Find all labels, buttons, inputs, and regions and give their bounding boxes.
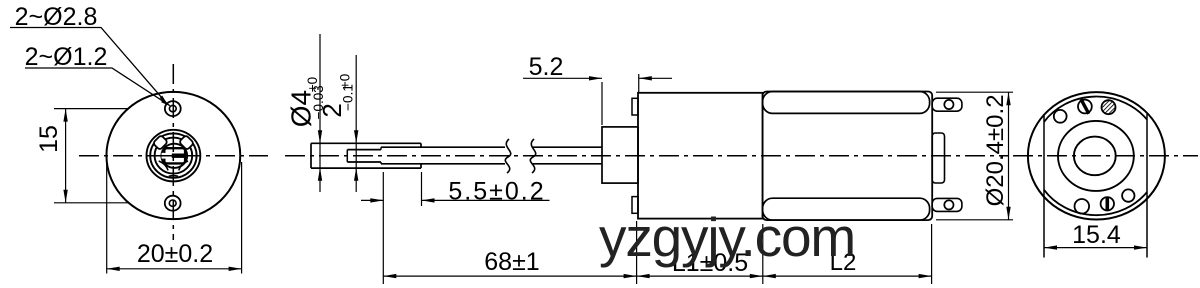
dim 5.2 left extension line (601, 82, 603, 125)
svg-text:20±0.2: 20±0.2 (137, 240, 213, 268)
motor terminal top hole (944, 100, 953, 109)
right screw upper slot (1081, 99, 1089, 114)
left view shaft slot gap (162, 153, 172, 159)
dim 15 bottom extension line (54, 202, 128, 204)
left view hub outer circle (147, 130, 201, 182)
svg-text:15.4: 15.4 (1072, 221, 1121, 249)
dim Ø20.4 line (1008, 92, 1010, 220)
dim L1 left extension line (636, 221, 638, 284)
svg-text:Ø20.4±0.2: Ø20.4±0.2 (982, 94, 1009, 206)
bearing boss (602, 127, 638, 183)
dim Ø4 arrow top (318, 130, 322, 143)
dim Ø4 arrow bottom (318, 168, 322, 181)
right view endcap bottom arc (1044, 190, 1147, 215)
dim L1 arrow right (750, 274, 763, 278)
motor bottom strip (763, 198, 930, 220)
right hatched hole upper (1102, 100, 1116, 114)
dim 20 arrow left (107, 267, 120, 271)
dim 5.5 arrow right (422, 198, 435, 202)
right view can circle (1028, 92, 1165, 219)
right hole lower-right (1122, 189, 1134, 201)
motor terminal top (932, 98, 962, 111)
leader line 2~Ø1.2 (25, 68, 170, 106)
motor top strip (763, 92, 930, 114)
dim 15.4 line (1044, 247, 1147, 249)
gearbox body (638, 93, 763, 219)
dim 15 line (65, 109, 67, 203)
right screw lower slot (1106, 197, 1110, 210)
svg-text:2~Ø2.8: 2~Ø2.8 (15, 3, 98, 31)
dim L1 line (637, 275, 763, 277)
motor can body (763, 92, 933, 221)
right view endcap top arc (1044, 97, 1147, 122)
dim 20 left extension line (106, 162, 108, 274)
shaft step top (420, 143, 422, 147)
right view bearing ring (1058, 121, 1134, 191)
dim 5.2 arrow right (639, 76, 652, 80)
dim 2 extension line (355, 55, 357, 192)
shaft neck top line b (533, 146, 602, 148)
dim 20 right extension line (241, 162, 243, 274)
dim 5.2 right extension line (638, 74, 640, 93)
shaft flat top line (347, 149, 381, 151)
dim L1 arrow left (637, 274, 650, 278)
dim 15.4 arrow left (1044, 245, 1057, 249)
dim 5.2 right line (639, 77, 672, 79)
left view hub tab upper-left (153, 135, 168, 150)
shaft bottom line (311, 167, 421, 169)
leader line 2~Ø2.8 (10, 28, 167, 104)
dim 5.2 arrow left (589, 76, 602, 80)
left view vertical centerline (172, 64, 174, 240)
dim 5.5 left extension line (382, 172, 384, 284)
dim L2 arrow right (919, 274, 932, 278)
side view centerline (285, 155, 1009, 157)
left view horizontal centerline (79, 155, 268, 157)
shaft tip edge (310, 143, 312, 168)
dim Ø4 extension line (319, 34, 321, 192)
svg-text:5.5±0.2: 5.5±0.2 (448, 177, 545, 205)
dim 5.5 left line (361, 199, 383, 201)
dim Ø20.4 arrow top (1006, 92, 1010, 105)
dim 5.5 arrow left (370, 198, 383, 202)
dim Ø20.4 top extension line (936, 91, 1013, 93)
svg-text:5.2: 5.2 (529, 53, 564, 81)
right view endcap left chord (1043, 115, 1045, 258)
left view body circle (106, 92, 240, 219)
gearbox tab top (632, 98, 638, 115)
left view hub tab upper-right (179, 135, 194, 150)
dim L1 right extension line (762, 224, 764, 284)
right hole upper-left (1054, 110, 1067, 123)
dim 15 arrow up (63, 109, 67, 122)
motor terminal bottom (932, 198, 962, 211)
right hole lower-left (1075, 199, 1090, 214)
dim 5.5 right line (422, 199, 550, 201)
shaft flat step bottom (380, 162, 382, 164)
shaft step bottom (420, 164, 422, 168)
svg-text:2~Ø1.2: 2~Ø1.2 (25, 43, 108, 71)
right screw upper (1078, 100, 1092, 114)
left view shaft slot centerline (160, 155, 187, 157)
dim Ø20.4 arrow bottom (1006, 207, 1010, 220)
hole top inner circle (169, 105, 176, 111)
shaft neck bottom line a (381, 163, 505, 165)
shaft flat bottom line (347, 161, 381, 163)
svg-text:15: 15 (35, 125, 63, 153)
hole bottom outer circle (165, 196, 181, 211)
dim 5.5 right extension line (421, 172, 423, 206)
dim L2 arrow left (763, 274, 776, 278)
dim 68 arrow right (624, 274, 637, 278)
svg-text:−0.1: −0.1 (341, 84, 356, 111)
dim 5.2 left line (523, 77, 602, 79)
dim 15 top extension line (54, 108, 128, 110)
dim 68 line (383, 275, 636, 277)
dim 15.4 arrow right (1134, 245, 1147, 249)
dim 20 line (107, 268, 242, 270)
dim 2 arrow top (354, 130, 358, 143)
svg-text:68±1: 68±1 (484, 248, 539, 276)
leader arrow 2~Ø1.2 (161, 99, 170, 106)
left view shaft slot middle bar (172, 154, 185, 158)
motor rear boss (932, 133, 944, 183)
dim L2 line (763, 275, 932, 277)
svg-text:yzgyjy.com: yzgyjy.com (599, 206, 855, 268)
motor terminal bottom hole (944, 200, 953, 209)
gearbox tab bottom (632, 197, 638, 214)
shaft neck bottom line b (533, 163, 602, 165)
shaft top line (311, 142, 421, 144)
hole bottom inner circle (169, 200, 176, 206)
right view endcap right chord (1146, 114, 1148, 258)
dim 2 arrow bottom (354, 168, 358, 181)
left view hub second circle (150, 133, 196, 177)
right screw lower (1101, 197, 1114, 210)
shaft break left squiggle (505, 139, 510, 173)
left view hub lower-left arc (159, 161, 168, 170)
dim 68 arrow left (383, 274, 396, 278)
left view hub bottom arc (169, 175, 178, 178)
dim 15 arrow down (63, 190, 67, 203)
hole top outer circle (165, 101, 181, 116)
left view hub inner ring (155, 138, 193, 174)
dim L2 right extension line (931, 224, 933, 284)
shaft neck top line a (381, 146, 505, 148)
shaft flat start tick (346, 150, 348, 162)
dim Ø20.4 bottom extension line (936, 219, 1013, 221)
shaft flat step top (380, 147, 382, 149)
left view shaft circle (161, 144, 187, 168)
dim 20 arrow right (229, 267, 242, 271)
left view shaft slot outline (164, 148, 185, 163)
left view hub lower-right arc (179, 161, 188, 170)
right view center hole (1074, 137, 1116, 176)
leader arrow 2~Ø2.8 (160, 96, 168, 105)
shaft break right squiggle (530, 139, 535, 173)
right view centerline (1013, 155, 1198, 157)
